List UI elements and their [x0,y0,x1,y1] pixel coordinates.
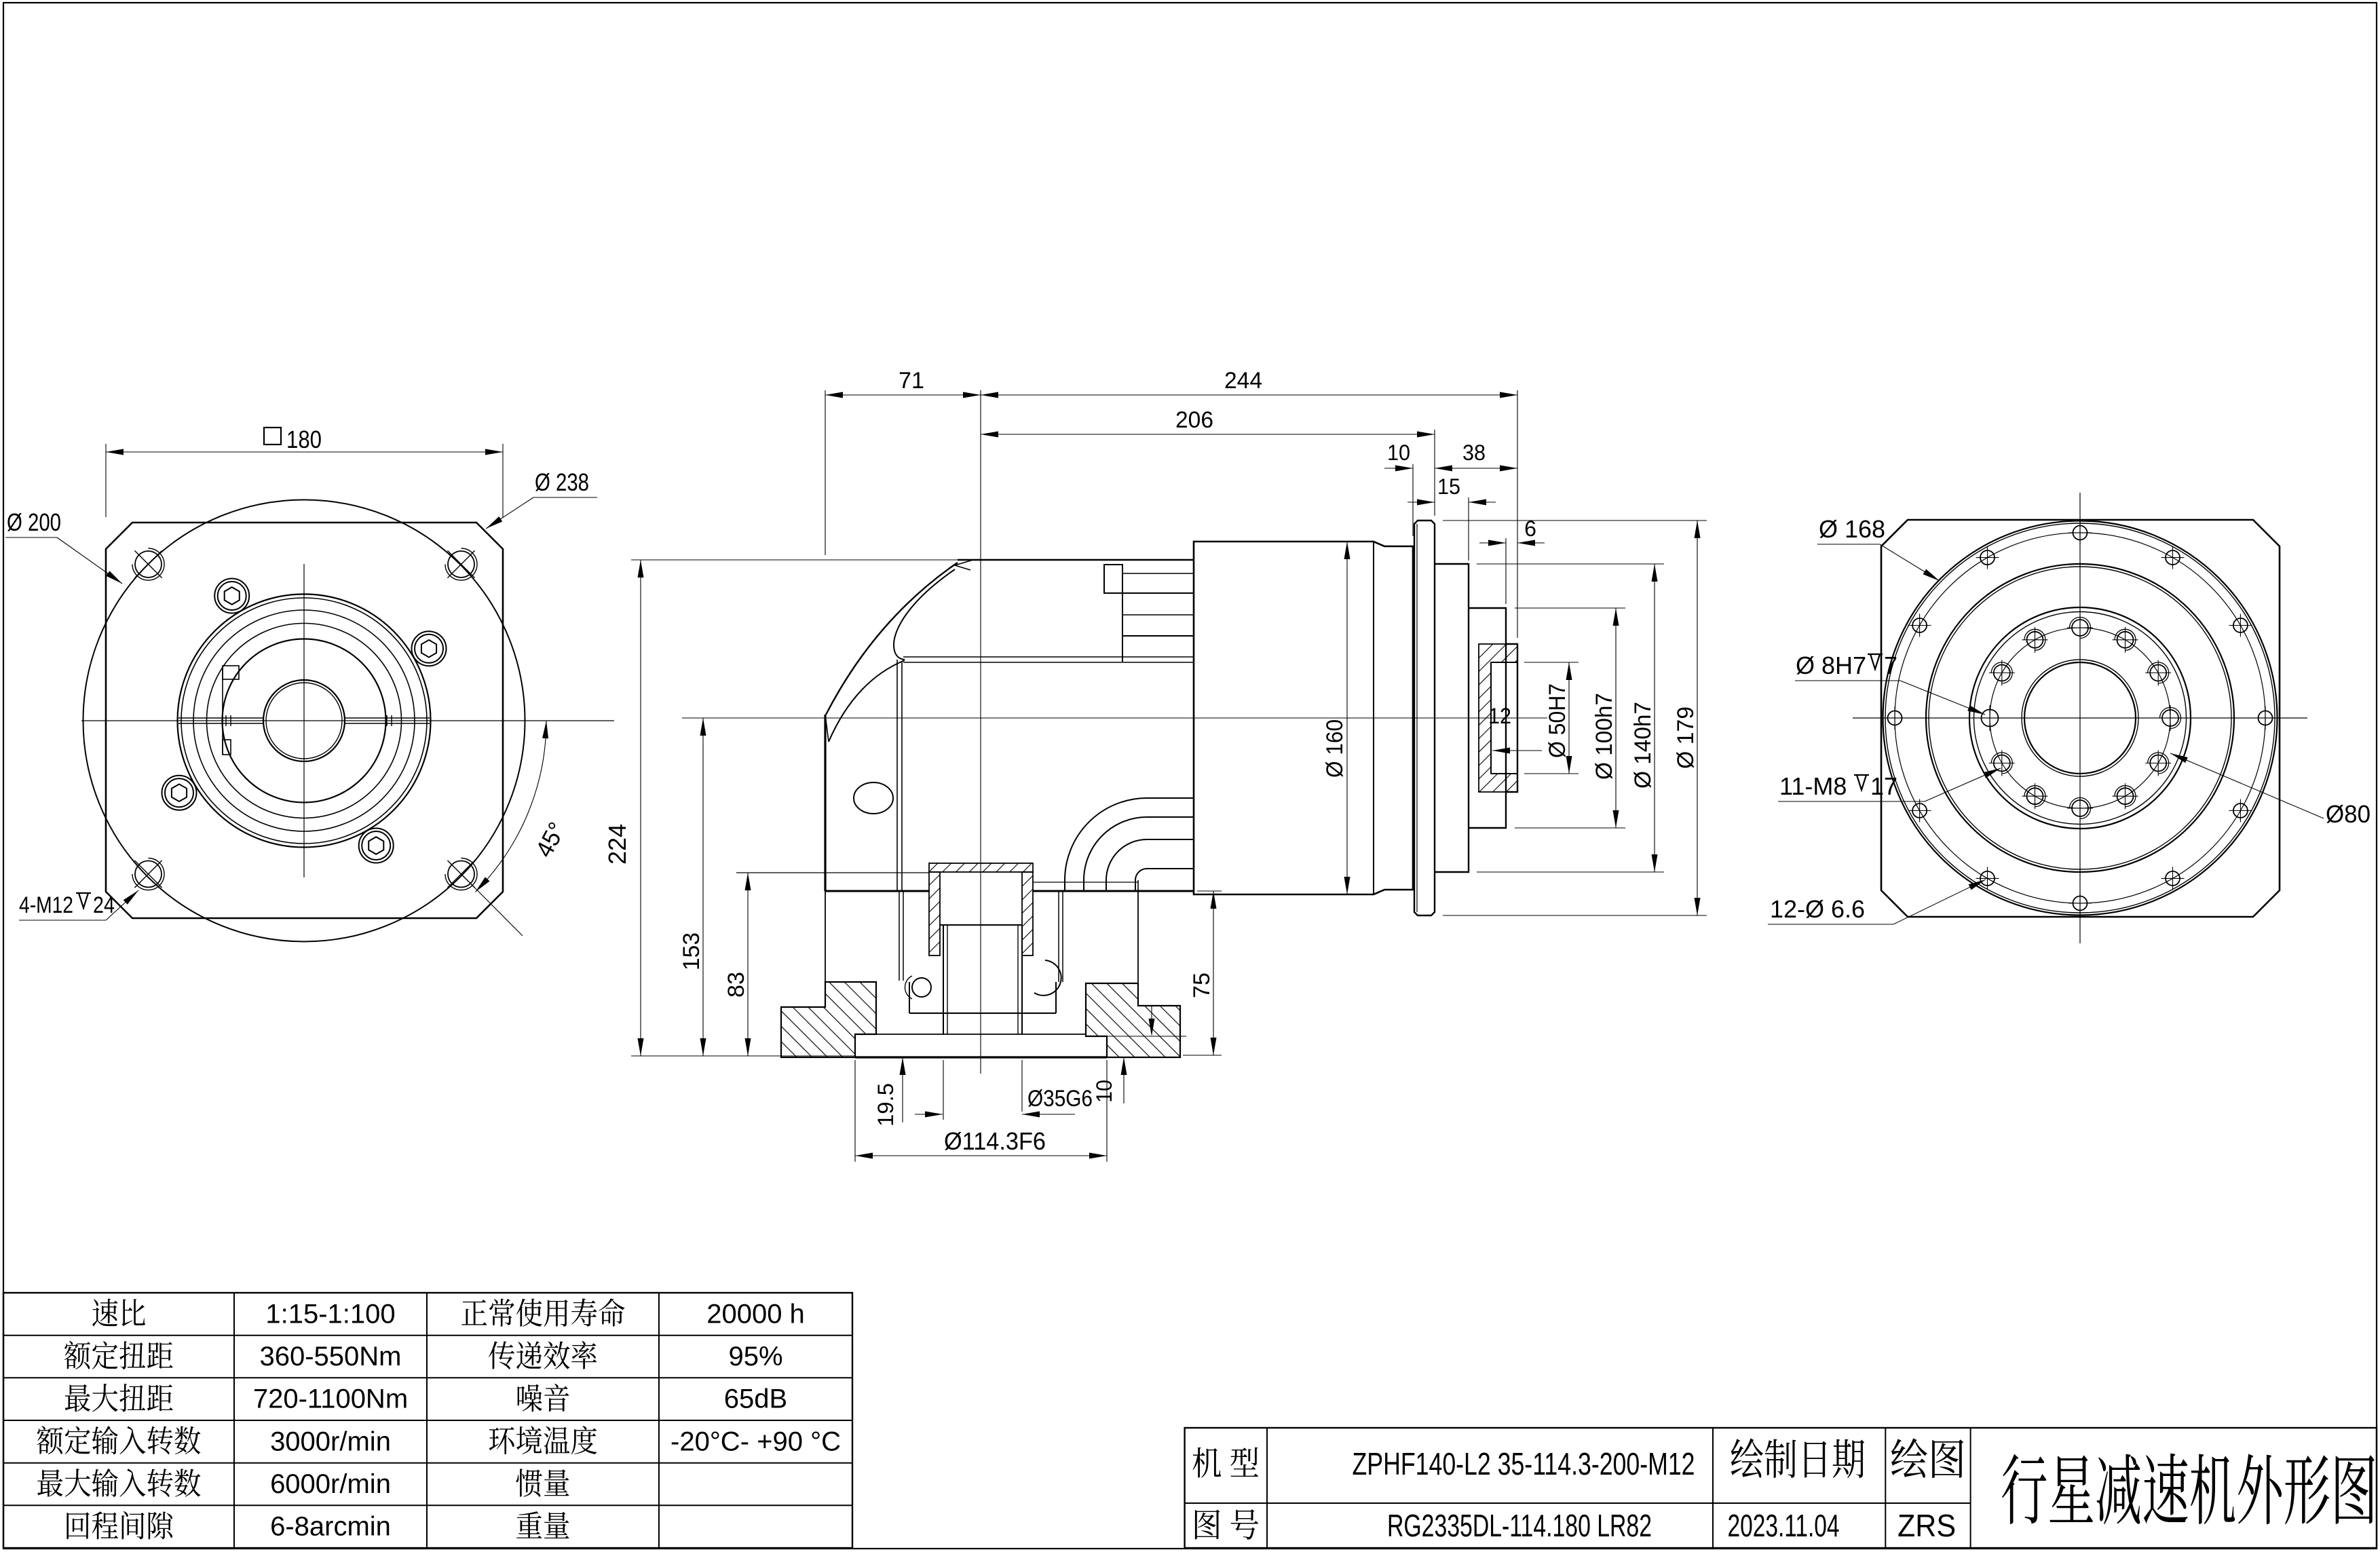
dim 153 [702,718,704,1056]
svg-text:4-M12: 4-M12 [19,892,73,918]
right view: D6.6 hole 12 [1980,550,1995,565]
right view: D6.6 hole 7 [2073,896,2088,911]
svg-text:71: 71 [899,368,924,394]
dim D140h7 [1477,563,1664,565]
svg-text:206: 206 [1175,407,1213,433]
spec table row 4 [37,1426,201,1454]
middle view: housing bottom face left [825,890,929,892]
dim D179 [1443,520,1707,521]
svg-text:Ø 168: Ø 168 [1819,515,1885,543]
left view: clamp slit right [345,717,430,719]
right view: bolt circle D80 [1990,628,2170,808]
title block grid [1185,1428,2377,1548]
title block: labels [1193,1447,1259,1478]
middle view: body D160 outline [1194,542,1413,894]
middle view: oval hole on housing face [854,782,893,814]
left view: M12 corner hole bottom left [135,861,162,888]
svg-text:224: 224 [603,824,631,865]
dim 75 [1197,890,1222,892]
dim 224 [631,559,958,561]
left view: hex socket screw lower left [162,776,197,810]
middle view: clamp boss right wall hatched [1022,872,1033,955]
middle view: elbow top edge [958,559,1194,561]
right view: M8 threaded hole 2 [2117,632,2134,648]
spec table row 1 [92,1299,145,1327]
svg-text:Ø114.3F6: Ø114.3F6 [944,1127,1046,1155]
dim D160 [1346,542,1348,894]
middle view: clamp screw head arc right [1034,960,1061,996]
svg-text:2023.11.04: 2023.11.04 [1728,1508,1840,1543]
middle view: horizontal centerline [682,717,1547,719]
dim 15 [1468,497,1469,561]
left view: bore D35 double [263,680,345,761]
svg-text:3000r/min: 3000r/min [270,1426,391,1456]
right view: circle D100 double [1969,607,2191,829]
right view: pin hole D8H7 [1982,710,1999,727]
svg-text:Ø 50H7: Ø 50H7 [1545,683,1570,758]
middle view: bell outer curve [826,563,958,715]
middle view: cavity left wall [825,891,826,982]
spec table row 2 [64,1341,173,1369]
svg-text:95%: 95% [728,1342,782,1371]
svg-text:153: 153 [679,932,704,970]
right view: M8 threaded hole 11 [1994,665,2010,681]
dim 19.5 [902,1057,903,1122]
right view: M8 threaded hole 3 [2150,665,2166,681]
svg-text:244: 244 [1224,368,1262,394]
left view: hex socket screw upper left [214,579,249,613]
middle view: cavity wall verticals below housing [899,891,900,981]
left view: hex socket screw lower right [359,829,394,863]
right view: M8 threaded hole 6 [2117,788,2134,804]
dim 206 [1434,430,1435,516]
middle view: motor shaft pocket [940,924,1022,926]
right view: horizontal centerline [1853,717,2307,719]
right view: D6.6 hole 1 [2073,526,2088,540]
middle view: elbow bottom arcs (wire bends) [1065,798,1194,891]
svg-text:720-1100Nm: 720-1100Nm [253,1384,408,1414]
right view: D6.6 hole 10 [1888,711,1902,725]
svg-text:10: 10 [1387,440,1410,465]
middle view: D67 end boss [1506,644,1517,792]
middle view: joint line left (83 ref) [736,872,929,873]
left view: horizontal centerline [81,720,614,721]
middle view: motor spigot plate D114.3 [855,1034,1086,1035]
right view: M8 threaded hole 5 [2150,755,2166,772]
svg-text:Ø 179: Ø 179 [1673,706,1699,769]
middle view: joint line right [1033,882,1138,883]
dim: square 180 [105,444,107,517]
svg-text:1:15-1:100: 1:15-1:100 [265,1299,395,1329]
right view: M8 threaded hole 4 [2162,710,2178,726]
left view: vertical centerline [303,564,305,877]
svg-text:Ø35G6: Ø35G6 [1027,1086,1093,1112]
svg-text:83: 83 [723,972,749,998]
middle view: flange thick left edge [824,715,826,891]
svg-text:ZPHF140-L2 35-114.3-200-M12: ZPHF140-L2 35-114.3-200-M12 [1353,1446,1695,1481]
right view: D6.6 hole 6 [2166,871,2180,886]
left view: spigot circle D114.3 (double) [178,594,431,848]
svg-text:75: 75 [1189,972,1215,998]
spec table grid [3,1293,852,1548]
svg-text:12-Ø 6.6: 12-Ø 6.6 [1770,895,1865,923]
svg-text:6-8arcmin: 6-8arcmin [270,1512,391,1542]
right view: D6.6 hole 5 [2233,803,2248,818]
left view: clamp slit left [178,717,263,719]
svg-text:6: 6 [1524,516,1536,541]
middle view: elbow right cavity vertical [1137,880,1139,891]
middle view: body end ring face [1373,542,1374,894]
left view: circle D100 [193,610,415,831]
middle view: inner joint double line [903,656,1194,658]
svg-text:19.5: 19.5 [873,1083,898,1127]
dim 244 [1517,390,1518,638]
right view: D6.6 hole 8 [1980,871,1995,886]
middle view: input plate stack [1122,565,1123,662]
right view: circle D140 double [1926,564,2234,872]
svg-text:180: 180 [286,425,322,453]
left view: M12 corner hole bottom right [448,861,474,888]
dim D100h7 [1515,607,1625,609]
middle view: D179 flange plate [1414,521,1435,915]
svg-text:Ø 238: Ø 238 [535,468,589,496]
middle view: bell small chamfer at top [955,560,973,570]
middle view: D100 ring [1469,608,1506,828]
middle view: bell lower lip double curve [829,660,905,742]
left view: hub circle D75 [223,639,386,803]
dim 10 (spigot) [1107,1036,1186,1037]
svg-text:7: 7 [1884,651,1897,679]
svg-text:65dB: 65dB [724,1384,787,1414]
right view: circle D179 double [1883,521,2278,915]
svg-text:24: 24 [93,892,115,918]
title block: drawing title [2002,1454,2375,1525]
dim: 45 degree arc [475,721,546,892]
middle view: clamp bore walls D35 [943,925,944,1034]
middle view: end recess D50 hatched section [1479,644,1517,792]
dim D50H7 [1524,662,1579,663]
middle view: clamp boss left wall hatched [929,872,940,955]
svg-text:Ø 8H7: Ø 8H7 [1796,651,1866,679]
spec table row 6 [67,1511,172,1540]
left view: hex socket screw upper right [412,631,447,666]
spec table row 3 [65,1384,173,1412]
dim 83 [747,873,749,1056]
dim D35G6 [1021,1060,1023,1112]
middle view: housing bottom face right [1033,890,1194,892]
svg-text:10: 10 [1092,1080,1116,1103]
middle view: D140 ring [1435,564,1469,872]
svg-text:12: 12 [1488,704,1511,728]
middle view: input vertical centerline [980,390,981,1074]
svg-text:15: 15 [1437,474,1460,499]
right view: M8 threaded hole 9 [1994,755,2010,772]
middle view: adapter plate right block hatched [1086,983,1180,1057]
right view: M8 threaded hole 8 [2027,788,2043,804]
right view: D6.6 hole 11 [1912,618,1927,632]
right view: M8 threaded hole 12 [2027,632,2043,648]
right view: D6.6 hole 9 [1912,803,1927,818]
middle view: adapter plate left block hatched [781,982,876,1057]
svg-text:38: 38 [1462,440,1486,465]
middle view: bell inner curve with hook [894,569,955,660]
left view: square flange outline [106,523,503,918]
svg-text:RG2335DL-114.180 LR82: RG2335DL-114.180 LR82 [1387,1508,1652,1543]
svg-text:Ø80: Ø80 [2326,800,2370,828]
right view: bore D50 double [2022,660,2138,776]
svg-text:Ø 200: Ø 200 [7,508,61,536]
svg-text:Ø 140h7: Ø 140h7 [1630,702,1656,789]
right view: D6.6 hole 2 [2166,550,2180,565]
dim 38 [1435,468,1517,469]
right view: M8 threaded hole 1 [2072,620,2088,636]
svg-text:Ø 100h7: Ø 100h7 [1591,693,1617,780]
left view: keyway flat and notches [222,667,223,755]
right view: vertical centerline [2079,493,2081,943]
svg-text:11-M8: 11-M8 [1779,772,1847,800]
dim 6 [1505,538,1507,604]
right view: D6.6 hole 3 [2233,618,2248,632]
dim 10 (flange plate) [1412,464,1414,536]
svg-text:360-550Nm: 360-550Nm [259,1342,401,1371]
left view: bolt circle D200 [83,500,525,942]
middle view: clamp collar bottom [909,1012,1056,1014]
right view: square flange outline [1881,520,2280,917]
svg-text:6000r/min: 6000r/min [270,1469,391,1499]
right view: bolt circle D168 [1895,533,2265,903]
svg-text:20000 h: 20000 h [706,1299,805,1329]
middle view: cavity outline verticals [1137,891,1139,983]
middle view: inner bore verticals left [896,660,898,891]
left view: M12 corner hole top right [448,551,474,578]
svg-text:ZRS: ZRS [1897,1508,1956,1543]
svg-text:-20°C- +90 °C: -20°C- +90 °C [670,1426,841,1456]
right view: D6.6 hole 4 [2259,711,2273,725]
svg-text:17: 17 [1870,772,1897,800]
left view: M12 corner hole top left [135,551,162,578]
right view: M8 threaded hole 7 [2072,800,2088,816]
svg-text:Ø 160: Ø 160 [1322,719,1348,778]
middle view: clamp screw section left [912,978,931,997]
dim D114.3F6 [854,1060,856,1162]
dim 71 [825,390,826,555]
left view: circle D90 [207,624,402,818]
middle view: clamp boss top cap hatched [929,863,1033,872]
spec table row 5 [37,1469,200,1497]
